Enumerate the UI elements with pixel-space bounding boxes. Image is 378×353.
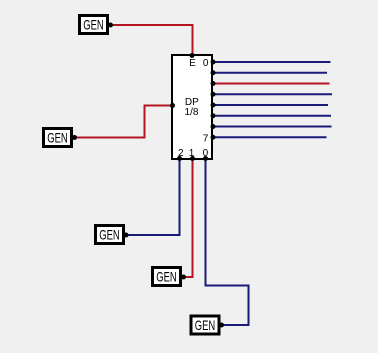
svg-text:GEN: GEN bbox=[83, 18, 103, 33]
svg-text:GEN: GEN bbox=[99, 228, 119, 243]
svg-text:1: 1 bbox=[189, 148, 195, 159]
svg-text:GEN: GEN bbox=[156, 270, 176, 285]
svg-text:7: 7 bbox=[203, 134, 209, 145]
svg-text:E: E bbox=[189, 58, 196, 69]
svg-text:0: 0 bbox=[203, 58, 209, 69]
svg-text:1/8: 1/8 bbox=[185, 107, 199, 118]
svg-text:GEN: GEN bbox=[47, 131, 67, 146]
svg-text:GEN: GEN bbox=[195, 318, 215, 333]
svg-text:2: 2 bbox=[178, 148, 184, 159]
svg-text:0: 0 bbox=[203, 148, 209, 159]
